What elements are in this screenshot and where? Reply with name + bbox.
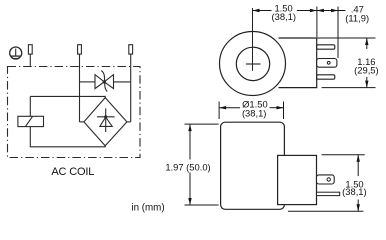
wire stub diamond left [80,121,84,123]
dim 1.50 right line + arrows [357,155,360,211]
svg-text:AC COIL: AC COIL [51,166,94,178]
dim 1.50 right: ext lines [322,154,365,156]
TVS junction dot [103,80,106,83]
wire TVS right [113,81,130,83]
dim 1.16: ext lines [317,37,376,39]
svg-text:1.97 (50.0): 1.97 (50.0) [165,162,210,173]
coil diagonal [25,116,32,126]
wire stub diamond right [127,121,131,123]
bridge rectifier diamond [84,98,127,146]
bridge diode junction dot [104,115,107,118]
terminal pin 2 [78,45,82,54]
center cross horizontal [246,63,261,65]
wire coil bottom lead [30,127,105,147]
blade hole (top view) [327,61,330,64]
coil L1 [18,116,44,126]
wire pin2 vertical [79,54,81,122]
dim 1.16 line + arrows [365,38,368,88]
TVS bidirectional suppressor [95,71,114,92]
blade terminal bottom [317,75,335,79]
dim 1.97 line + arrows [188,124,191,205]
dim 1.97: ext lines [185,123,219,125]
svg-text:in (mm): in (mm) [131,202,164,213]
terminal pin 1 [28,45,32,54]
ext line connector face [316,7,318,38]
dim dia 1.50 line + arrows [219,106,283,109]
dim 1.50 top: line + arrows [253,9,317,12]
coil inner circle [236,47,269,80]
ext line blade tips [337,7,339,59]
svg-text:(38,1): (38,1) [342,186,367,197]
wire top horizontal [30,96,105,97]
thin blade (side view) [317,192,340,195]
blade terminal middle [317,59,337,68]
connector housing (side view) [278,155,317,204]
centerline vertical [252,8,254,71]
dim dia 1.50: ext lines [218,102,220,120]
svg-text:(38,1): (38,1) [242,108,267,119]
dim .47: arrows + leader [317,9,346,12]
blade hole (side view) [327,178,330,181]
wire pin3 vertical [130,54,132,122]
svg-text:(38,1): (38,1) [272,11,297,22]
wire coil top lead [29,96,31,116]
svg-text:(11,9): (11,9) [345,13,369,24]
coil outer circle (top view) [220,32,286,96]
coil body (top view) [279,38,317,88]
coil body (side view) [221,122,285,209]
wire pin1 to box [29,54,31,66]
blade with hole (side view) [317,175,335,184]
wire TVS left [80,81,96,83]
svg-text:(29,5): (29,5) [354,65,379,76]
ground symbol [10,47,22,59]
enclosure dash-dot box [8,67,141,158]
blade terminal top [317,45,335,49]
terminal pin 3 [129,45,133,54]
bridge diode [97,108,115,132]
